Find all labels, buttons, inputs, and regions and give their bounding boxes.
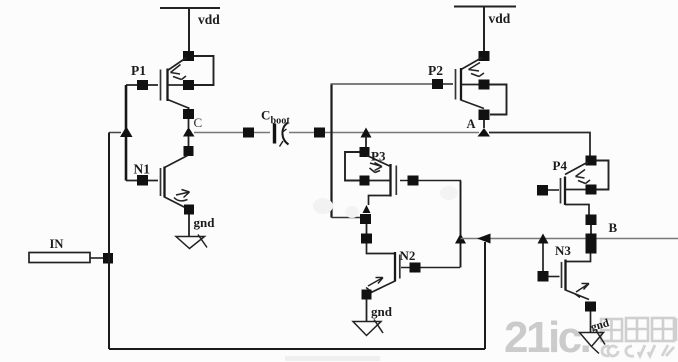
- junction N3 gate: [538, 234, 549, 244]
- svg-text:gnd: gnd: [371, 304, 393, 319]
- watermark faint bottom strip: [285, 356, 380, 361]
- wire N2 source to ground: [366, 300, 368, 322]
- transistor P3: [345, 147, 461, 205]
- wire node B horizontal: [461, 238, 678, 240]
- transistor P2: [432, 51, 507, 120]
- svg-text:N3: N3: [555, 243, 571, 258]
- vdd rail left: [160, 8, 220, 51]
- ground N3: [580, 331, 606, 354]
- svg-text:boot: boot: [271, 116, 291, 127]
- wire feedback bottom: [109, 348, 485, 350]
- svg-text:A: A: [467, 117, 476, 131]
- svg-text:P2: P2: [428, 63, 443, 78]
- wire IN column vertical: [108, 133, 110, 350]
- wire N1 source to ground: [188, 215, 190, 237]
- svg-text:vdd: vdd: [489, 11, 511, 26]
- junction P3 source: [361, 128, 372, 138]
- wire P3 gate to N2 gate: [460, 181, 462, 268]
- node C junction: [183, 127, 195, 137]
- svg-text:gnd: gnd: [194, 215, 216, 230]
- svg-text:C: C: [261, 108, 270, 123]
- wire below node C: [188, 136, 190, 146]
- transistor N1: [126, 156, 194, 215]
- watermark 21ic bottom right: [504, 313, 676, 362]
- svg-text:N2: N2: [400, 248, 416, 263]
- wire IN to column: [90, 257, 104, 259]
- wire P1 gate to N1 gate: [125, 85, 128, 181]
- ground N1: [176, 235, 207, 249]
- svg-text:P4: P4: [553, 158, 568, 173]
- feedback arrow into node B: [477, 234, 491, 244]
- wire to node A: [325, 132, 479, 134]
- junction node B left: [455, 234, 466, 244]
- wire bootstrap bottom link: [332, 217, 361, 219]
- wire bootstrap top horizontal: [331, 83, 433, 85]
- capacitor Cboot: [275, 123, 289, 147]
- smudge artifacts: [313, 198, 333, 214]
- transistor N2: [362, 244, 461, 300]
- svg-text:IN: IN: [50, 237, 64, 251]
- svg-text:B: B: [609, 220, 618, 235]
- wire node A to P4: [489, 133, 590, 156]
- svg-text:P1: P1: [131, 63, 146, 78]
- wire to N2 drain: [366, 224, 368, 234]
- wire junction to P3: [365, 136, 367, 147]
- svg-text:21ic.: 21ic.: [504, 313, 590, 362]
- wire bootstrap vertical: [330, 84, 332, 218]
- ground N2: [353, 320, 383, 336]
- wire node C stem: [188, 119, 190, 128]
- wire feedback vertical: [484, 242, 486, 349]
- node B square: [586, 234, 597, 244]
- junction P3 drain: [363, 205, 371, 213]
- junction gates to IN: [120, 127, 133, 138]
- wire junction to IN column: [109, 132, 121, 134]
- wire node C horizontal: [194, 132, 270, 134]
- transistor N3: [538, 244, 597, 312]
- transistor P4: [537, 156, 609, 226]
- wire N3 source to ground: [590, 312, 592, 333]
- vdd rail right: [454, 7, 516, 52]
- wire P2 drain to node A: [483, 120, 485, 128]
- wire P4 drain to node B: [590, 225, 592, 234]
- svg-text:vdd: vdd: [198, 12, 220, 27]
- svg-text:P3: P3: [371, 149, 386, 164]
- svg-text:C: C: [194, 115, 203, 130]
- node A junction: [478, 128, 491, 137]
- transistor P1: [126, 51, 214, 119]
- svg-text:N1: N1: [134, 162, 151, 177]
- wire cap to right: [289, 132, 315, 134]
